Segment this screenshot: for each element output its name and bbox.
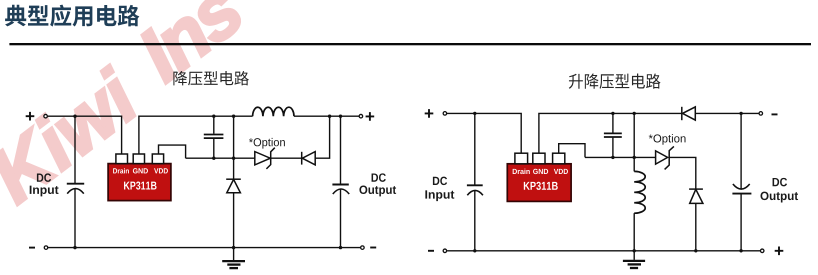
zener diode Z2 *Option [656,146,674,169]
polarity label - R input [428,250,434,252]
label DC Input line1 (left) [37,173,51,181]
terminal R: output - [759,112,763,116]
junction R bypass/rail [611,112,614,115]
diode D3 (top, to - output) [682,107,696,120]
polarity label - R output [772,113,778,115]
terminal R: output + [760,249,764,253]
wire R: inductor to - rail [633,213,635,251]
ground symbol (right) [623,251,645,268]
junction L in-cap/-rail [73,246,76,249]
ground symbol (left) [222,248,245,269]
wire L: diode cathode up to rail [315,116,329,158]
capacitor C4 input (polarized) [467,185,483,195]
wire R: + rail to Drain pin [447,113,521,153]
label *Option (left) [249,138,285,149]
U1 pin 2 (GND) [133,154,144,164]
U2 pin 3 (VDD) [553,153,565,164]
wire L: rail down to freewheel diode cathode [233,116,235,179]
label DC Output line2 (left) [359,186,396,197]
wire L: VDD row to zener anode [186,157,255,159]
U2 pin label VDD [554,169,568,174]
terminal L: output - [361,246,365,250]
wire R: rail down to inductor [633,113,635,171]
diode D4 (vertical) [689,189,703,203]
zener diode Z1 *Option [255,148,275,169]
polarity label + R input [425,109,434,118]
junction L diode/row [232,157,235,160]
wire R: diode to - output rail [695,112,760,114]
junction R diode/-rail [694,249,697,252]
label DC Output line1 (right) [773,178,787,186]
wire L: VDD pin loop [159,145,186,158]
wire R: diode anode to - rail [695,203,697,250]
wire R: zener cathode to diode [669,157,696,189]
junction R in-cap/-rail [473,249,476,252]
junction R ind/row [633,156,636,159]
junction L out-cap/-rail [339,246,342,249]
polarity label + R output [775,247,784,256]
label DC Input line2 (left) [30,186,59,197]
wire R: output cap upper lead [740,113,742,189]
junction L bypass/rail [212,115,215,118]
wire L: + rail to Drain pin [48,116,122,154]
page title 典型应用电路 [5,5,139,27]
wire L: input cap lower lead [74,189,76,248]
junction L gnd/-rail [232,246,235,249]
U2 pin label Drain [513,169,530,175]
label DC Output line1 (left) [372,173,386,181]
polarity label - L input [29,247,35,249]
wire L: bypass cap lower lead [213,139,215,158]
inductor L1 [253,107,294,116]
U2 pin 1 (Drain) [515,153,528,164]
inductor L2 [634,171,645,213]
wire R: input cap lower lead [474,190,476,251]
wire R: bypass cap upper lead [612,113,614,132]
diode D2 (reverse, *Option) [302,152,316,165]
capacitor C1 input (polarized) [67,184,84,194]
wire L: output cap upper lead [340,116,342,184]
junction R out-cap/rail [739,112,742,115]
wire R: VDD row to zener anode [585,156,655,158]
capacitor C5 VDD bypass [604,133,622,137]
U1 part number KP311B [124,181,157,189]
U1 pin label Drain [113,168,129,174]
capacitor C6 output (polarized, inverted) [732,184,751,194]
wire L: bypass cap upper lead [213,116,215,134]
wire R: output cap lower lead [740,194,742,251]
U1 pin 3 (VDD) [152,154,163,164]
horizontal rule [9,43,811,45]
capacitor C2 VDD bypass [204,135,224,139]
wire L: GND pin to switch rail [139,116,253,154]
label *Option (right) [649,134,686,145]
wire R: VDD pin loop [559,144,585,158]
wire L: inductor to + output rail [294,115,361,117]
polarity label - L output [370,247,376,249]
junction R bypass/row [611,156,614,159]
section label 降压型电路 (buck circuit) [173,71,248,85]
polarity label + L input [26,112,35,121]
watermark Kiwi Ins (rotated) [0,0,262,221]
U2 pin label GND [533,169,548,174]
junction L option/rail [328,115,331,118]
IC U2 KP311B body [507,164,571,202]
junction L out-cap/rail [339,115,342,118]
junction L diode/rail [232,115,235,118]
label DC Input line2 (right) [425,190,454,201]
junction R gnd/-rail [633,249,636,252]
U1 pin label VDD [154,168,168,173]
wire L: output cap lower lead [340,189,342,248]
label DC Output line2 (right) [760,192,798,203]
diode D1 freewheel [226,179,241,193]
junction R ind/rail [633,112,636,115]
capacitor C3 output (polarized) [332,185,349,195]
wire L: input cap upper lead [74,116,76,183]
terminal L: input - [44,246,48,250]
terminal R: input + [443,112,447,116]
IC U1 KP311B body [108,164,171,201]
terminal R: input - [443,249,447,253]
wire R: bottom rail [447,250,762,252]
U2 part number KP311B [524,182,558,190]
wire L: wire between option diodes [271,157,302,159]
section label 升降压型电路 (buck-boost circuit) [569,73,661,88]
wire L: bottom - rail [48,247,362,249]
junction R out-cap/-rail [739,249,742,252]
U2 pin 2 (GND) [533,153,545,164]
U1 pin label GND [133,168,148,173]
U1 pin 1 (Drain) [116,154,128,164]
polarity label + L output [366,112,375,121]
wire R: bypass cap lower lead [612,138,614,158]
junction L in-cap/rail [73,115,76,118]
terminal L: output + [359,114,363,118]
wire R: GND pin rail to diode [539,113,682,153]
junction R in-cap/rail [473,112,476,115]
wire L: freewheel diode anode to - rail [233,193,235,248]
label DC Input line1 (right) [433,177,447,185]
wire R: input cap upper lead [474,113,476,184]
junction L bypass/row [212,157,215,160]
terminal L: input + [44,114,48,118]
